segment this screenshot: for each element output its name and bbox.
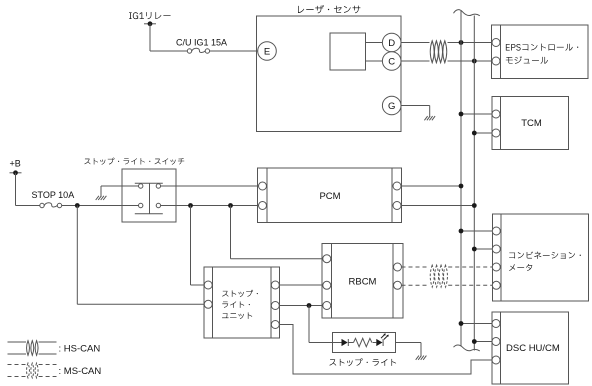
wire fuse to laser sensor pin E [210,50,258,52]
ECU DSC HU/CM [492,312,569,384]
PCM pin L1 [259,182,267,190]
wire bus to DSC pin 2 [474,341,492,343]
svg-text:RBCM: RBCM [349,277,377,288]
node combo2 [472,247,477,252]
LED D2 [376,339,382,346]
svg-text:+B: +B [10,159,21,169]
node after STOP fuse [75,203,80,208]
svg-text:: MS-CAN: : MS-CAN [59,366,102,377]
pin C [382,52,401,71]
svg-text:C/U IG1 15A: C/U IG1 15A [176,38,227,48]
laser sensor レーザ・センサ [257,5,402,131]
unit pin R1 [271,281,279,289]
svg-text:TCM: TCM [521,118,542,129]
wire bus to combination meter pin 1 [461,230,493,232]
node DSC2 [472,339,477,344]
CAN bus line L [473,16,475,351]
switch contact bottom-left [139,203,143,207]
node TCM1 [459,112,464,117]
wire node to stop light lamp [308,306,310,343]
ECU TCM [492,97,569,150]
lamp internal wire [333,342,342,344]
PCM pin L2 [259,202,267,210]
pin E [258,42,277,61]
ground (laser sensor) [424,116,435,120]
node PCM R1 at bus [459,184,464,189]
combo pin 1 [492,227,500,235]
node CAN-L at bus [472,59,477,64]
EPS pin 1 [492,39,500,47]
dashed MS-CAN wire RBCM R2 to meter [402,284,430,286]
bus break mark top [454,10,480,16]
TCM pin 1 [492,110,500,118]
RBCM pin L3 [323,302,331,310]
bus break mark bottom [454,345,480,351]
wire unit R2 to RBCM L3 [279,305,323,307]
wire switch top row to ground [101,185,139,187]
unit pin R3 [271,321,279,329]
relay feed IG1 terminal [129,12,171,26]
node DSC1 [459,321,464,326]
dashed MS-CAN wire RBCM R1 to meter [402,266,430,268]
node stop lamp feed [307,303,312,308]
resistor R1 [354,338,372,346]
TCM pin 2 [492,129,500,137]
wire bus to DSC pin 1 [461,323,492,325]
unit pin L1 [204,281,212,289]
wire fuse to stop light switch [62,205,139,207]
wire to RBCM L1 [230,206,232,259]
RBCM pin R1 [394,263,402,271]
stop light unit ストップ・ライト・ユニット [204,267,280,338]
wire IG1 to fuse [150,24,187,51]
wire bus to TCM pin 2 [474,132,492,134]
LED arrows [381,334,388,339]
switch contact bottom-right [156,203,160,207]
unit pin R2 [271,302,279,310]
svg-text:: HS-CAN: : HS-CAN [59,344,101,355]
ground (switch) [96,196,107,200]
svg-text:PCM: PCM [319,191,340,202]
wire CAN-H pin D to EPS [401,42,430,44]
wire PCM R1 to bus [401,185,461,187]
node brake feed 2 [228,203,233,208]
node CAN-H at bus [459,40,464,45]
power terminal +B [10,159,22,176]
wire module to pin D [366,42,383,44]
combo pin 2 [492,245,500,253]
RBCM pin R2 [394,281,402,289]
ground (stop light) [416,356,427,360]
laser sensor internal module [330,33,366,70]
wire bus to TCM pin 1 [461,113,492,115]
ECU PCM [258,168,402,223]
DSC pin 2 [492,338,500,346]
pin G [382,96,401,115]
switch contact top-right [156,184,160,188]
node brake feed 1 [188,203,193,208]
diode D1 [342,339,348,346]
switch linkage bars [135,182,163,184]
wire to stop light unit L1 [190,206,192,286]
svg-text:C: C [388,57,395,68]
wire PCM R2 to bus [401,205,474,207]
wire module to pin C [366,60,383,62]
ECU combination meter コンビネーション・メータ [493,214,589,301]
wire switch to PCM pin L1 [161,185,259,187]
svg-text:D: D [388,38,395,49]
svg-text:DSC HU/CM: DSC HU/CM [506,343,560,354]
DSC pin 3 [492,356,500,364]
EPS pin 2 [492,57,500,65]
combo pin 4 [492,281,500,289]
svg-text:E: E [264,47,270,58]
wire switch to PCM pin L2 [161,205,259,207]
wire unit R3 to DSC pin 3 [279,325,492,375]
node combo1 [459,229,464,234]
fuse STOP 10A [32,190,75,208]
PCM pin R2 [393,202,401,210]
node PCM R2 at bus [472,203,477,208]
wire CAN-L pin C to EPS [401,60,430,62]
PCM pin R1 [393,182,401,190]
pin D [382,33,401,52]
legend HS-CAN [8,341,101,356]
wire unit R1 to RBCM L2 [279,284,323,286]
twisted pair MS-CAN (dashed) [430,265,434,287]
wire lamp to ground [396,342,422,344]
combo pin 3 [492,263,500,271]
node TCM2 [472,131,477,136]
ECU RBCM [322,244,403,319]
DSC pin 1 [492,320,500,328]
ECU EPS control module [492,25,589,79]
svg-text:STOP 10A: STOP 10A [32,190,75,200]
stop light switch ストップ・ライト・スイッチ [84,158,184,222]
wire pin G to ground [401,106,430,118]
wire bus to combination meter pin 2 [474,248,492,250]
switch contact top-left [139,184,143,188]
wire to stop light unit L2 [76,206,78,305]
stop light lamp box ストップ・ライト [329,333,396,367]
unit pin L2 [204,300,212,308]
twisted pair HS-CAN (laser to bus) [430,41,434,63]
RBCM pin L2 [323,281,331,289]
fuse C/U IG1 15A [176,38,227,54]
svg-text:G: G [388,101,395,112]
CAN bus line H [460,11,462,347]
RBCM pin L1 [323,255,331,263]
legend MS-CAN [8,363,102,378]
wire +B down to fuse row [16,173,40,206]
